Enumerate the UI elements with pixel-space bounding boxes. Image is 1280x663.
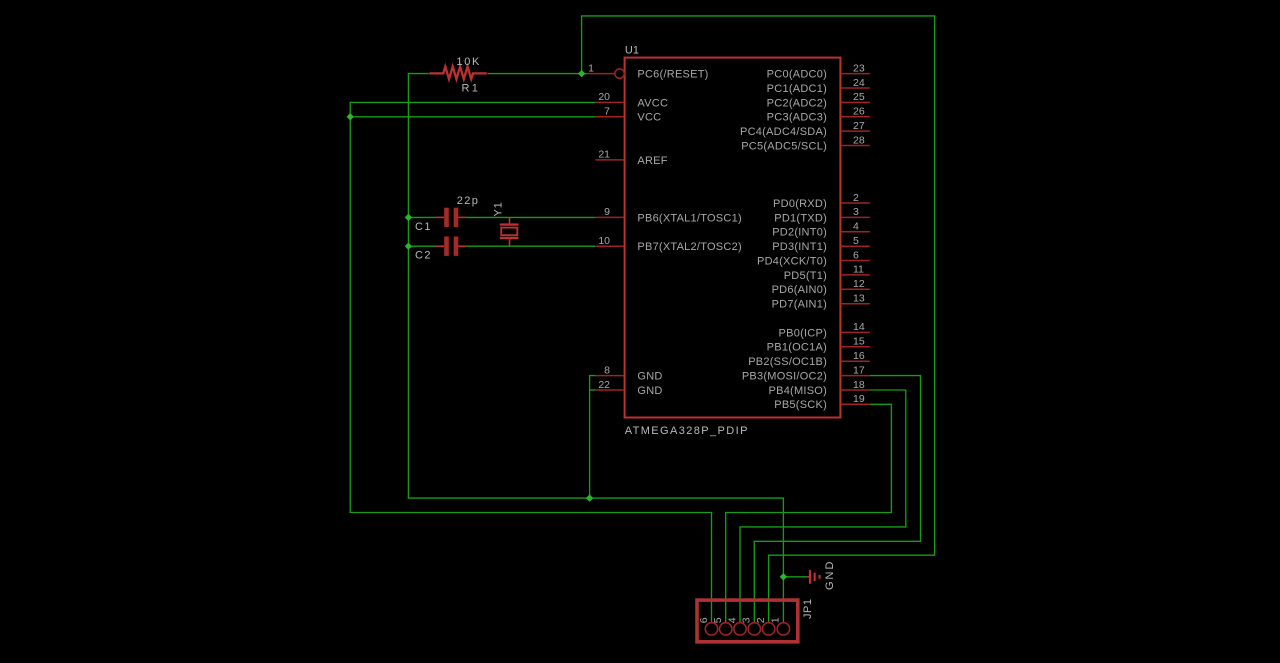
svg-text:C1: C1 [415, 221, 432, 233]
svg-text:PB7(XTAL2/TOSC2): PB7(XTAL2/TOSC2) [637, 241, 741, 253]
JP1 pin 5 pad [720, 623, 732, 635]
svg-text:6: 6 [698, 617, 710, 623]
U1 pin 15 PB1(OC1A) [767, 336, 870, 354]
U1 pin 9 PB6(XTAL1/TOSC1) [595, 206, 741, 224]
ground symbol GND [807, 570, 821, 584]
svg-text:PB2(SS/OC1B): PB2(SS/OC1B) [748, 356, 827, 368]
U1 pin 25 PC2(ADC2) [767, 91, 870, 109]
svg-text:20: 20 [598, 91, 610, 103]
svg-text:25: 25 [853, 91, 865, 103]
U1 pin 21 AREF [595, 149, 667, 167]
svg-text:14: 14 [853, 321, 865, 333]
svg-text:PD5(T1): PD5(T1) [784, 270, 827, 282]
U1 pin 27 PC4(ADC4/SDA) [740, 120, 870, 138]
U1 pin 18 PB4(MISO) [769, 379, 870, 397]
svg-text:5: 5 [853, 235, 859, 247]
wire SCK net: U1 pin19 to JP1 pin5 [726, 404, 892, 623]
svg-text:PD0(RXD): PD0(RXD) [773, 198, 827, 210]
junction GND at ground symbol [780, 573, 787, 580]
capacitor C2 [436, 237, 466, 256]
svg-text:22p: 22p [457, 195, 480, 207]
svg-text:VCC: VCC [637, 112, 661, 124]
svg-text:PC3(ADC3): PC3(ADC3) [767, 112, 827, 124]
svg-text:13: 13 [853, 293, 865, 305]
U1 pin 24 PC1(ADC1) [767, 77, 870, 95]
svg-text:PB5(SCK): PB5(SCK) [774, 399, 827, 411]
U1 pin 23 PC0(ADC0) [767, 62, 870, 80]
svg-text:PD3(INT1): PD3(INT1) [772, 241, 827, 253]
svg-text:18: 18 [853, 379, 865, 391]
svg-text:GND: GND [824, 560, 836, 590]
svg-text:PD1(TXD): PD1(TXD) [774, 212, 827, 224]
U1 pin 10 PB7(XTAL2/TOSC2) [595, 235, 741, 253]
svg-text:PB6(XTAL1/TOSC1): PB6(XTAL1/TOSC1) [637, 212, 741, 224]
svg-text:15: 15 [853, 336, 865, 348]
U1 pin 22 GND [595, 379, 662, 397]
svg-text:R1: R1 [462, 83, 481, 95]
U1 pin 11 PD5(T1) [784, 264, 870, 282]
U1 pin 28 PC5(ADC5/SCL) [741, 134, 870, 152]
svg-text:19: 19 [853, 393, 865, 405]
wire AVCC net: U1 pin20 to left rail [350, 102, 711, 623]
JP1 pin 1 pad [777, 623, 789, 635]
svg-text:23: 23 [853, 62, 865, 74]
svg-text:PC5(ADC5/SCL): PC5(ADC5/SCL) [741, 140, 827, 152]
svg-text:ATMEGA328P_PDIP: ATMEGA328P_PDIP [625, 425, 749, 437]
svg-text:22: 22 [598, 379, 610, 391]
JP1 pin 2 pad [762, 623, 774, 635]
svg-text:PC0(ADC0): PC0(ADC0) [767, 69, 827, 81]
svg-text:PC2(ADC2): PC2(ADC2) [767, 97, 827, 109]
crystal Y1 [500, 217, 519, 246]
wire MOSI net: U1 pin17 to JP1 pin3 [754, 376, 920, 624]
U1 pin 16 PB2(SS/OC1B) [748, 350, 870, 368]
U1 pin 4 PD2(INT0) [772, 221, 870, 239]
U1 pin 20 AVCC [595, 91, 668, 109]
connector JP1 outline [697, 600, 798, 642]
svg-text:7: 7 [604, 106, 610, 118]
svg-text:16: 16 [853, 350, 865, 362]
svg-text:AVCC: AVCC [637, 97, 668, 109]
capacitor C1 [436, 208, 466, 227]
svg-text:21: 21 [598, 149, 610, 161]
svg-text:10: 10 [598, 235, 610, 247]
JP1 pin 6 pad [705, 623, 717, 635]
svg-text:27: 27 [853, 120, 865, 132]
svg-text:4: 4 [726, 617, 738, 623]
svg-text:11: 11 [853, 264, 864, 276]
svg-text:U1: U1 [625, 44, 639, 56]
junction GND rail at C2 [405, 243, 412, 250]
wire GND net: U1 pin 22 stub [590, 389, 596, 391]
svg-text:24: 24 [853, 77, 865, 89]
svg-text:PC4(ADC4/SDA): PC4(ADC4/SDA) [740, 126, 827, 138]
IC U1 ATMEGA328P outline [625, 58, 841, 418]
svg-text:PD2(INT0): PD2(INT0) [772, 227, 827, 239]
JP1 pin 3 pad [748, 623, 760, 635]
junction VCC/AVCC rail [347, 113, 354, 120]
svg-text:PB0(ICP): PB0(ICP) [779, 327, 827, 339]
wire GND net: left rail from R1 down [408, 74, 783, 624]
U1 pin 2 PD0(RXD) [773, 192, 870, 210]
U1 pin 12 PD6(AIN0) [772, 278, 870, 296]
junction GND bottom rail [586, 494, 593, 501]
svg-text:PD7(AIN1): PD7(AIN1) [772, 299, 827, 311]
U1 pin 1 PC6(/RESET) [587, 62, 709, 80]
U1 pin 17 PB3(MOSI/OC2) [742, 364, 870, 382]
svg-text:2: 2 [853, 192, 859, 204]
svg-text:6: 6 [853, 249, 859, 261]
wire RESET net loop: up over IC, right side down, to JP1 pin2 [582, 16, 935, 623]
wire GND net: stub to C2 [408, 245, 435, 247]
resistor R1 [429, 67, 487, 80]
svg-text:9: 9 [604, 206, 610, 218]
svg-text:PC1(ADC1): PC1(ADC1) [767, 83, 827, 95]
svg-text:3: 3 [741, 617, 753, 623]
svg-text:AREF: AREF [637, 155, 667, 167]
svg-text:JP1: JP1 [802, 599, 814, 619]
svg-text:5: 5 [712, 617, 724, 623]
U1 pin 8 GND [595, 364, 662, 382]
svg-text:Y1: Y1 [493, 201, 505, 216]
svg-text:PB4(MISO): PB4(MISO) [769, 385, 827, 397]
wire VCC net: U1 pin7 branch [350, 116, 595, 118]
junction RESET net at U1 pin1 [578, 70, 585, 77]
U1 pin 7 VCC [595, 106, 661, 124]
wire GND net: U1 pins 8/22 down to rail [590, 376, 596, 499]
wire GND net: to ground symbol [783, 576, 806, 578]
svg-text:GND: GND [637, 371, 662, 383]
svg-text:PC6(/RESET): PC6(/RESET) [637, 69, 708, 81]
U1 pin 6 PD4(XCK/T0) [757, 249, 870, 267]
wire XTAL1 net: C1 to U1 pin9 [465, 216, 595, 218]
svg-text:28: 28 [853, 134, 865, 146]
svg-text:PB1(OC1A): PB1(OC1A) [767, 342, 827, 354]
svg-text:4: 4 [853, 221, 859, 233]
svg-text:PD6(AIN0): PD6(AIN0) [772, 284, 827, 296]
svg-text:3: 3 [853, 206, 859, 218]
svg-text:10K: 10K [456, 56, 481, 68]
svg-text:8: 8 [604, 364, 610, 376]
svg-text:PB3(MOSI/OC2): PB3(MOSI/OC2) [742, 371, 827, 383]
U1 pin 5 PD3(INT1) [772, 235, 870, 253]
svg-text:1: 1 [770, 617, 782, 623]
U1 pin 3 PD1(TXD) [774, 206, 870, 224]
svg-text:C2: C2 [415, 249, 432, 261]
wire RESET net: R1 to U1 pin1 [487, 73, 586, 75]
svg-text:GND: GND [637, 385, 662, 397]
svg-text:2: 2 [755, 617, 767, 623]
wire GND net: stub to C1 [408, 216, 435, 218]
U1 pin 13 PD7(AIN1) [772, 293, 870, 311]
JP1 pin 4 pad [734, 623, 746, 635]
U1 pin 19 PB5(SCK) [774, 393, 870, 411]
U1 pin 26 PC3(ADC3) [767, 106, 870, 124]
svg-text:PD4(XCK/T0): PD4(XCK/T0) [757, 255, 827, 267]
svg-text:26: 26 [853, 106, 865, 118]
wire XTAL2 net: C2 to U1 pin10 [465, 245, 595, 247]
svg-text:17: 17 [853, 364, 865, 376]
U1 pin 14 PB0(ICP) [779, 321, 870, 339]
wire MISO net: U1 pin18 to JP1 pin4 [740, 390, 906, 623]
junction GND rail at C1 [405, 214, 412, 221]
svg-text:12: 12 [853, 278, 865, 290]
svg-text:1: 1 [588, 62, 594, 74]
